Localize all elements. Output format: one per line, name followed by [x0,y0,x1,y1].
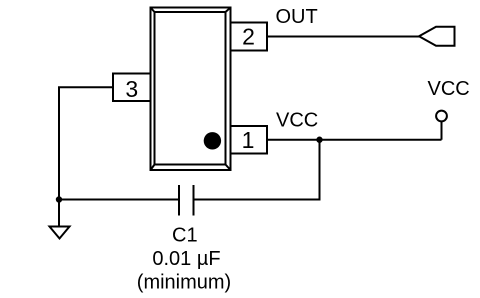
pin 1 marker dot [204,132,221,149]
svg-text:VCC: VCC [276,110,318,132]
svg-text:(minimum): (minimum) [137,272,231,294]
svg-text:0.01 µF: 0.01 µF [152,248,220,270]
wire: junction down to ground symbol [58,200,60,227]
pin 2 [231,23,268,51]
pin 1 [231,126,268,154]
svg-text:C1: C1 [172,225,198,247]
wire: pin 1 to VCC terminal [267,139,442,141]
wire: riser to VCC terminal circle [441,121,443,139]
svg-text:VCC: VCC [428,78,470,100]
node: VCC junction [316,137,322,143]
VCC terminal circle [436,111,447,122]
wire: capacitor right plate to riser, up to VCC net [194,140,320,200]
svg-text:2: 2 [242,24,255,50]
svg-text:3: 3 [125,76,138,102]
pin 3 [113,74,151,102]
ground [50,227,70,239]
svg-text:1: 1 [242,127,255,153]
capacitor C1 [179,185,194,216]
OUT terminal flag [419,27,455,46]
node: ground junction [56,196,62,202]
wire: pin 2 to OUT terminal [267,36,419,38]
svg-text:OUT: OUT [276,6,318,28]
wire: ground junction to capacitor left plate [59,199,179,201]
wire: pin 3 left then down to ground [59,87,113,199]
IC U1 (3-pin SOT-23 package outline) [151,8,231,171]
